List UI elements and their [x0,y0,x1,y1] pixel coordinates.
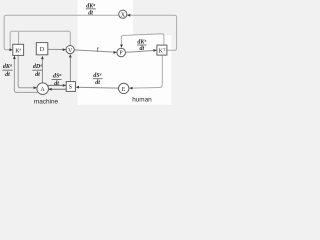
svg-text:A: A [40,87,45,93]
fraction dK^a/dt (top, on wire X to K^a) [86,3,96,17]
svg-text:E: E [122,87,126,93]
white band middle [78,0,134,105]
arrowhead into D bottom [41,56,44,59]
svg-text:dt: dt [5,72,10,78]
fraction dK^a/dt (left, on wire A to K^a) [2,63,12,78]
svg-text:dt: dt [88,10,93,16]
box S [66,82,75,92]
fraction dS^a/dt (on wire A to S) [52,73,62,87]
wire S to V (up into V bottom) [69,55,71,82]
wire E to S [76,86,118,89]
svg-text:dt: dt [140,46,145,52]
arrowhead into P left edge [114,51,117,54]
circle X [119,10,127,18]
circle V [66,46,74,54]
svg-text:machine: machine [34,98,59,105]
wire P to K^T [126,50,157,52]
svg-text:D: D [40,47,45,53]
wire K^a to A (down and right) [18,55,36,87]
wire X to K^a (top wire left and down left side) [4,15,119,50]
wire D to V [48,48,66,50]
arrowhead into E right edge [129,87,132,90]
circle P [117,48,126,57]
svg-text:X: X [121,12,126,18]
fraction dK^e/dt (on wire P to K^T) [137,39,147,52]
arrowhead into S left edge [63,84,66,87]
circle A (machine agent) [37,83,49,95]
svg-text:dt: dt [35,72,40,78]
wire stub from V loop into K^a top [18,32,20,44]
svg-text:dt: dt [54,81,59,87]
wire K^T to E (down and left into E) [130,55,163,88]
arrowhead into X right edge [127,14,130,17]
svg-text:S: S [69,85,72,91]
arrowhead into V bottom [69,54,72,57]
arrowhead into P top [120,45,123,48]
wire A to K^a (left and up into K^a bottom) [14,56,38,92]
white region right [133,35,172,105]
box D [36,43,48,55]
box K^T [157,45,167,55]
arrowhead into K^a left edge [9,48,12,51]
fraction dD^a/dt (on wire A to D) [32,63,42,78]
circle E (human effector) [119,83,129,93]
svg-text:human: human [132,96,152,103]
arrowhead into K^a bottom [13,56,16,59]
wire V to K^a (loop from V top leftwards) [10,31,70,50]
wire A to D (up into D bottom) [41,56,43,83]
wire K^T to P (loop over the fraction) [121,34,163,47]
arrowhead into V left edge [63,48,66,51]
arrowhead into A right edge [49,88,52,91]
svg-text:V: V [68,48,73,54]
svg-text:dt: dt [95,80,100,86]
wire A to S [48,84,66,86]
arrowhead into A left edge [34,86,37,89]
wire S to A [49,88,66,90]
wire K^T to X (right loop up and along top into X) [127,15,176,50]
wire V to P [74,50,116,52]
fraction dS^e/dt (on wire E to S) [93,72,103,86]
background base [0,0,180,105]
arrowhead into S right edge [76,86,79,89]
arrowhead into K^T left edge [154,49,157,52]
box K^a [13,44,24,55]
